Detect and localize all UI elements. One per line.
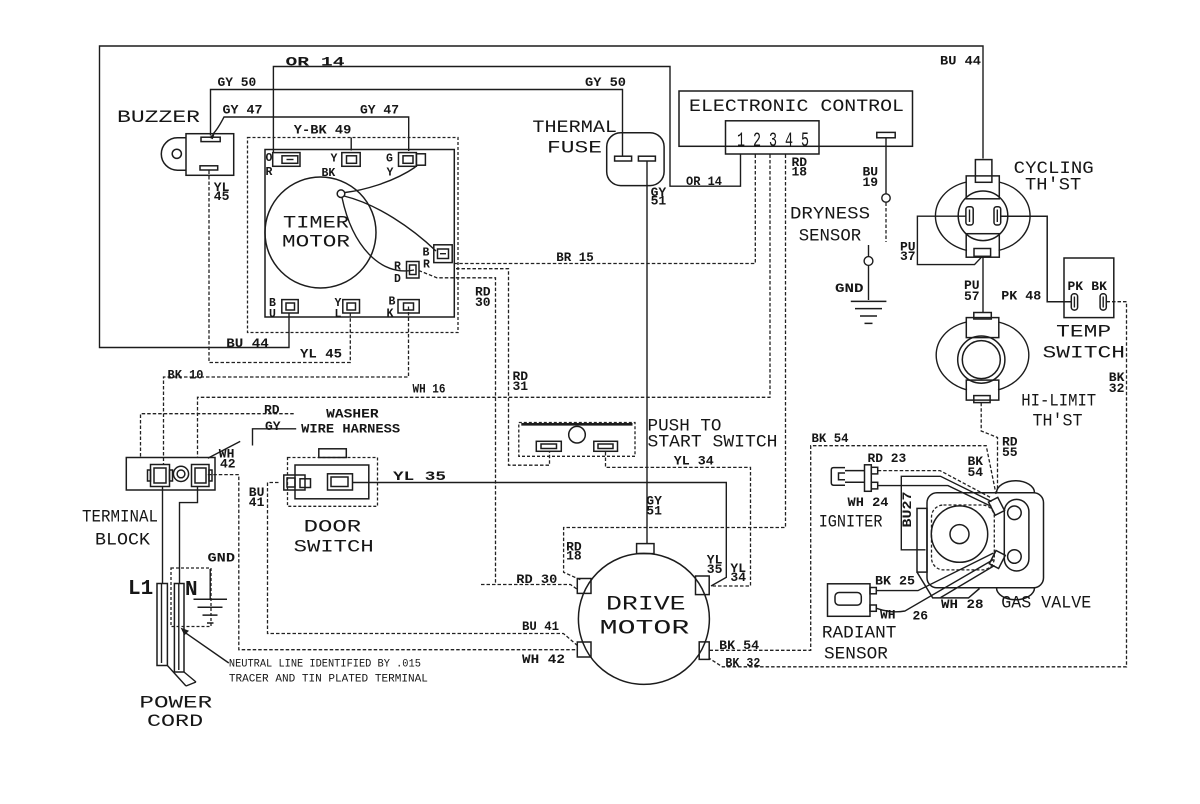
svg-text:L: L <box>335 308 342 321</box>
label YL 45 (buzzer) <box>214 180 230 204</box>
svg-text:GND: GND <box>835 281 864 296</box>
svg-text:MOTOR: MOTOR <box>282 233 351 253</box>
label WH 26 <box>880 607 928 623</box>
label DRYNESS SENSOR <box>790 205 870 247</box>
svg-text:32: 32 <box>1109 381 1125 396</box>
wire BK 32 (temp switch BK to drive motor lower-right terminal) <box>710 302 1127 667</box>
svg-text:R: R <box>266 166 273 179</box>
label RD 23 <box>868 451 907 466</box>
svg-text:41: 41 <box>249 495 265 510</box>
label BK 32 (motor) <box>725 655 760 670</box>
svg-text:BK: BK <box>322 167 336 180</box>
svg-text:WH 28: WH 28 <box>941 597 984 612</box>
wire YL 45 (buzzer bottom to timer Y/L terminal) <box>209 171 350 363</box>
wire RD 31 (timer to push-to-start switch left terminal) <box>456 269 550 466</box>
wire RD 30 (timer R/D terminal to drive motor left terminal) <box>419 271 578 590</box>
svg-text:SWITCH: SWITCH <box>1043 344 1126 364</box>
label GY 47 right <box>360 103 399 118</box>
svg-text:PK 48: PK 48 <box>1001 289 1041 304</box>
wire L1 (terminal block to power cord L1 prong) <box>162 487 164 584</box>
svg-text:55: 55 <box>1002 445 1018 460</box>
temp switch <box>1064 258 1114 318</box>
terminal block <box>126 458 215 491</box>
label RD 18 (motor) <box>566 540 582 564</box>
label GY 51 (motor) <box>646 494 662 519</box>
label BU 44 (timer) <box>226 336 269 351</box>
label BK 54 (dashed box) <box>812 431 849 446</box>
label THERMAL FUSE <box>532 118 617 159</box>
svg-text:OR 14: OR 14 <box>286 55 345 70</box>
wire RD 23 (igniter to gas valve top lug) <box>878 471 991 498</box>
svg-text:O: O <box>266 152 273 165</box>
svg-text:34: 34 <box>730 570 746 585</box>
cycling thermostat <box>935 160 1030 258</box>
ground (power cord neutral) <box>171 568 227 627</box>
label PK 48 <box>1001 289 1041 304</box>
label HI-LIMIT TH'ST <box>1021 392 1096 432</box>
svg-text:BU 44: BU 44 <box>940 54 981 69</box>
wire RD 55 (hi-limit thermostat to gas valve top lug) <box>981 403 997 491</box>
wire WH 26 (radiant sensor to gas valve bottom lug) <box>876 560 993 612</box>
svg-text:18: 18 <box>566 549 582 564</box>
svg-text:BK 54: BK 54 <box>719 638 759 653</box>
svg-text:NEUTRAL LINE IDENTIFIED BY .01: NEUTRAL LINE IDENTIFIED BY .015 <box>229 659 421 671</box>
wire BK 10 (timer B/K terminal to terminal block left lug) <box>164 307 409 465</box>
svg-text:WASHER: WASHER <box>326 407 379 422</box>
svg-text:MOTOR: MOTOR <box>600 618 690 641</box>
label WH 42 (terminal block) <box>219 446 236 471</box>
electronic control U1 <box>679 91 913 154</box>
wire BU 19 (electronic control to dryness sensor) <box>864 139 890 301</box>
svg-text:BLOCK: BLOCK <box>95 531 151 551</box>
svg-text:THERMAL: THERMAL <box>532 118 617 138</box>
svg-text:TH'ST: TH'ST <box>1033 412 1083 432</box>
wire BU 44 (outer border: timer B/U terminal to cycling thermostat) <box>100 46 984 348</box>
timer terminal B/R <box>434 245 452 263</box>
label L1 <box>128 578 153 601</box>
label BK 54 (motor) <box>719 638 759 653</box>
svg-text:51: 51 <box>651 194 667 209</box>
label Y-BK 49 <box>294 123 352 138</box>
timer terminal B/K <box>398 300 419 313</box>
wire RD (washer wire harness) <box>141 414 295 457</box>
label OR 14 (electronic control) <box>686 174 722 189</box>
wire BU 41 (door switch left terminal to drive motor lower-left terminal) <box>268 483 579 647</box>
svg-text:SENSOR: SENSOR <box>799 227 862 247</box>
wire GY 47 (buzzer top to timer G/Y terminal) <box>213 117 409 151</box>
wire leader neutral note arrow <box>181 628 229 663</box>
push to start switch <box>519 423 635 457</box>
label RADIANT SENSOR <box>822 623 897 664</box>
label OR 14 (top) <box>286 55 345 70</box>
svg-text:RD: RD <box>264 403 280 418</box>
svg-text:ELECTRONIC CONTROL: ELECTRONIC CONTROL <box>689 97 904 117</box>
buzzer <box>161 134 233 176</box>
svg-text:OR 14: OR 14 <box>686 174 722 189</box>
label WASHER WIRE HARNESS <box>301 407 400 437</box>
label YL 34 (motor) <box>730 561 746 585</box>
radiant sensor <box>828 584 877 617</box>
label GY 50 left <box>218 75 257 90</box>
svg-text:GY 50: GY 50 <box>585 75 626 90</box>
ground (dryness sensor) <box>851 301 887 323</box>
label DRIVE MOTOR <box>600 594 690 641</box>
svg-text:D: D <box>394 273 401 286</box>
thermal fuse <box>607 133 664 186</box>
wire PK 48 (cycling thermostat right to temp switch PK) <box>1001 216 1071 302</box>
label RD 31 <box>513 369 529 394</box>
svg-text:GAS VALVE: GAS VALVE <box>1001 594 1091 614</box>
label CYCLING TH'ST <box>1014 159 1094 196</box>
label GY 47 left <box>223 103 263 118</box>
timer terminal G/Y <box>399 153 426 167</box>
svg-text:42: 42 <box>220 456 236 471</box>
svg-text:BK 10: BK 10 <box>168 368 204 383</box>
svg-text:RD 30: RD 30 <box>516 572 557 587</box>
label GND (dryness sensor) <box>835 281 864 296</box>
label BK 54 (gas valve) <box>968 454 984 480</box>
note neutral line <box>229 659 428 686</box>
label WH 24 <box>848 495 889 510</box>
svg-text:CORD: CORD <box>147 712 203 732</box>
svg-text:G: G <box>386 153 393 166</box>
wire BK 54 (drive motor to gas valve top lug, dashed run) <box>710 446 997 651</box>
label BU 44 (top right) <box>940 54 981 69</box>
wire BR 15 (timer B/R terminal to electronic control pin 2) <box>453 155 756 264</box>
svg-text:37: 37 <box>900 249 916 264</box>
svg-text:GY 47: GY 47 <box>223 103 263 118</box>
timer terminal O/R <box>273 153 300 167</box>
label BU 19 <box>863 165 879 191</box>
svg-text:TRACER AND TIN PLATED TERMINAL: TRACER AND TIN PLATED TERMINAL <box>229 674 428 686</box>
label POWER CORD <box>139 694 212 732</box>
svg-text:TIMER: TIMER <box>283 214 350 234</box>
label BK (temp switch) <box>1091 279 1107 294</box>
label IGNITER <box>819 513 883 533</box>
door switch <box>284 449 378 507</box>
label YL 34 (push to start) <box>674 454 714 469</box>
svg-text:GND: GND <box>208 551 236 566</box>
label RD (harness) <box>264 403 280 418</box>
svg-text:SENSOR: SENSOR <box>824 645 888 665</box>
svg-text:26: 26 <box>913 609 929 624</box>
label DOOR SWITCH <box>294 518 374 558</box>
label GY 50 right <box>585 75 626 90</box>
wire leader WH 42 to terminal block lug <box>208 441 240 458</box>
power cord <box>157 584 196 687</box>
timer motor assembly box <box>248 138 459 333</box>
label RD 30 (timer) <box>475 285 491 311</box>
wire BK 25 (radiant sensor to gas valve bottom lug) <box>876 553 993 591</box>
label TERMINAL BLOCK <box>82 508 158 551</box>
svg-text:51: 51 <box>646 504 662 519</box>
svg-text:R: R <box>394 261 401 274</box>
label BU27 (vertical) <box>900 492 915 528</box>
timer terminal Y/L <box>343 300 360 313</box>
label PK (temp switch) <box>1068 279 1084 294</box>
svg-text:FUSE: FUSE <box>547 139 602 159</box>
svg-text:RADIANT: RADIANT <box>822 623 897 643</box>
svg-text:BK 54: BK 54 <box>812 431 849 446</box>
label GAS VALVE <box>1001 594 1091 614</box>
svg-text:31: 31 <box>513 379 529 394</box>
svg-text:18: 18 <box>792 165 808 180</box>
svg-text:K: K <box>387 308 394 321</box>
label ELECTRONIC CONTROL <box>689 97 904 117</box>
hi-limit thermostat <box>936 313 1029 403</box>
svg-text:U: U <box>269 308 276 321</box>
timer pin letters top <box>266 152 394 180</box>
svg-text:GY 47: GY 47 <box>360 103 399 118</box>
svg-text:57: 57 <box>964 289 980 304</box>
label YL 45 <box>300 346 342 361</box>
svg-text:BK 25: BK 25 <box>875 574 915 589</box>
wire GY 51 (thermal fuse to drive motor top terminal) <box>646 161 648 543</box>
wire GY (washer wire harness) <box>253 429 297 446</box>
svg-text:BK: BK <box>1091 279 1107 294</box>
svg-text:45: 45 <box>214 189 230 204</box>
pin numbers 1 2 3 4 5 <box>737 130 809 153</box>
label BUZZER <box>117 108 201 128</box>
label WH 28 <box>941 597 984 612</box>
label WH 16 <box>413 382 446 397</box>
wire WH 24 (igniter to gas valve top lug) <box>878 486 992 507</box>
label TIMER MOTOR <box>282 214 351 253</box>
label PUSH TO START SWITCH <box>648 417 778 453</box>
svg-text:19: 19 <box>863 175 879 190</box>
svg-text:BU 41: BU 41 <box>522 619 559 634</box>
timer terminal R/D <box>407 262 420 279</box>
label WH 42 (motor) <box>522 652 565 667</box>
label YL 35 (motor) <box>707 553 723 578</box>
timer terminal Y/BK <box>342 153 360 167</box>
gas valve <box>917 481 1044 600</box>
wire RD 18 (electronic control pin 4 to drive motor upper-left terminal) <box>564 155 786 581</box>
igniter <box>831 465 877 492</box>
svg-text:WH 24: WH 24 <box>848 495 889 510</box>
label YL 35 (door switch) <box>393 469 446 484</box>
svg-text:54: 54 <box>968 465 984 480</box>
svg-text:R: R <box>423 259 430 272</box>
drive motor <box>577 544 709 685</box>
svg-text:GY: GY <box>265 419 281 434</box>
svg-text:RD 23: RD 23 <box>868 451 907 466</box>
wire Y-BK 49 (timer Y/BK terminal stub) <box>350 138 352 151</box>
svg-text:BK 32: BK 32 <box>725 655 760 670</box>
timer terminal B/U <box>282 300 298 313</box>
wire PU 37 (cycling thermostat loop) <box>917 216 981 264</box>
svg-text:TERMINAL: TERMINAL <box>82 508 158 528</box>
wire YL 35 (door switch to drive motor upper-right terminal) <box>353 483 727 587</box>
svg-text:START SWITCH: START SWITCH <box>648 433 778 453</box>
svg-text:SWITCH: SWITCH <box>294 538 374 558</box>
svg-text:GY 50: GY 50 <box>218 75 257 90</box>
svg-text:BU 44: BU 44 <box>226 336 269 351</box>
svg-text:TH'ST: TH'ST <box>1025 176 1081 196</box>
label BR 15 <box>556 250 594 265</box>
label BK 10 <box>168 368 204 383</box>
wire BU 27 (gas valve coil loop) <box>901 476 991 550</box>
svg-text:DRYNESS: DRYNESS <box>790 205 870 225</box>
node N <box>185 579 198 602</box>
svg-text:WH 16: WH 16 <box>413 382 446 397</box>
svg-text:PK: PK <box>1068 279 1084 294</box>
svg-text:TEMP: TEMP <box>1056 323 1111 343</box>
label BU 41 (door switch) <box>249 485 265 510</box>
svg-text:YL 35: YL 35 <box>393 469 446 484</box>
wire WH 42 (terminal block right lug to drive motor lower-left terminal) <box>208 475 577 650</box>
label GY (harness) <box>265 419 281 434</box>
label BK 25 <box>875 574 915 589</box>
label PU 57 <box>964 278 980 304</box>
svg-text:HI-LIMIT: HI-LIMIT <box>1021 392 1096 412</box>
wire OR 14 (timer O/R terminal to electronic control pin 1) <box>273 67 740 187</box>
wire YL 34 (push-to-start right terminal to drive motor upper-right terminal) <box>606 452 751 586</box>
wire WH 16 (electronic control pin 3 to terminal block right lug) <box>198 155 771 458</box>
svg-text:Y-BK 49: Y-BK 49 <box>294 123 352 138</box>
svg-text:YL 45: YL 45 <box>300 346 342 361</box>
svg-text:Y: Y <box>331 153 338 166</box>
svg-text:WH 42: WH 42 <box>522 652 565 667</box>
wire N (terminal block to power cord N prong) <box>180 487 198 584</box>
svg-text:WH: WH <box>880 607 896 622</box>
label RD 55 <box>1002 435 1018 461</box>
svg-text:DOOR: DOOR <box>304 518 362 538</box>
timer pin letters bottom <box>269 296 396 322</box>
svg-text:IGNITER: IGNITER <box>819 513 883 533</box>
svg-text:35: 35 <box>707 562 723 577</box>
label RD 30 (motor) <box>516 572 557 587</box>
svg-text:WIRE HARNESS: WIRE HARNESS <box>301 422 400 437</box>
label PU 37 <box>900 240 916 265</box>
timer motor <box>265 167 436 288</box>
wire PU 57 (cycling to hi-limit thermostat) <box>982 257 984 312</box>
timer pin letters right <box>394 247 430 287</box>
svg-text:BUZZER: BUZZER <box>117 108 201 128</box>
svg-text:DRIVE: DRIVE <box>606 594 686 617</box>
svg-text:N: N <box>185 579 198 602</box>
label BU 41 (motor) <box>522 619 559 634</box>
svg-text:BU27: BU27 <box>900 492 915 528</box>
label RD 18 (control) <box>792 155 808 180</box>
svg-text:BR 15: BR 15 <box>556 250 594 265</box>
label TEMP SWITCH <box>1043 323 1126 364</box>
svg-text:POWER: POWER <box>139 694 212 714</box>
wire GY 50 (buzzer top to thermal fuse left) <box>209 90 623 157</box>
label GND (power cord) <box>208 551 236 566</box>
svg-text:L1: L1 <box>128 578 153 601</box>
svg-text:1 2 3 4 5: 1 2 3 4 5 <box>737 130 809 153</box>
svg-text:30: 30 <box>475 295 491 310</box>
wire WH 28 (gas valve bottom lug) <box>941 566 995 598</box>
label GY 51 (fuse) <box>651 185 667 209</box>
label BK 32 (temp switch) <box>1109 370 1125 396</box>
svg-text:Y: Y <box>387 167 394 180</box>
svg-text:YL 34: YL 34 <box>674 454 714 469</box>
